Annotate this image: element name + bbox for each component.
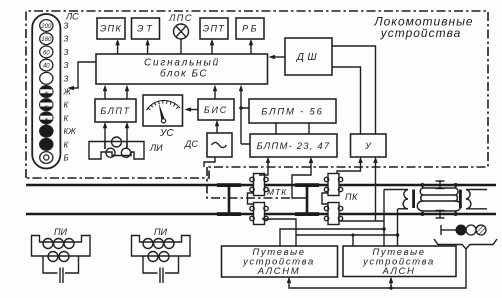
ЛИ coil bbox=[112, 137, 122, 147]
connectors БЛПМ-56 to БЛПМ-23,47 bbox=[276, 123, 309, 134]
wire transformer secondary drops bbox=[383, 190, 385, 222]
svg-text:БЛПМ - 56: БЛПМ - 56 bbox=[261, 107, 323, 118]
svg-text:З: З bbox=[64, 61, 69, 70]
svg-text:З: З bbox=[64, 35, 69, 44]
insulated joint rail2 bbox=[436, 211, 445, 219]
svg-text:З: З bbox=[64, 48, 69, 57]
locomotive signal ЛС housing bbox=[32, 14, 60, 169]
lamp yellow bbox=[40, 86, 53, 98]
signal mast tick bbox=[440, 225, 442, 235]
svg-text:МТК: МТК bbox=[267, 187, 287, 197]
svg-text:Ж: Ж bbox=[63, 88, 72, 97]
insulated joint rail1 bbox=[436, 181, 445, 189]
rail junction dots bbox=[421, 183, 425, 187]
svg-text:ПИ: ПИ bbox=[154, 227, 168, 237]
arrow into БС bottom from БИС bbox=[214, 87, 216, 99]
svg-text:З: З bbox=[64, 74, 69, 83]
wheelset axle 2 bbox=[295, 183, 319, 216]
svg-text:УС: УС bbox=[159, 128, 174, 139]
block ЭПТ bbox=[200, 18, 228, 39]
transformer Tr2 secondary coil bbox=[466, 190, 471, 209]
coil МТК bottom bobbin bbox=[250, 203, 268, 225]
transformer Tr2 secondary wires bbox=[466, 189, 487, 191]
transformer Tr1 secondary coil bbox=[403, 190, 408, 209]
arrows ЛИ to БЛПТ bbox=[104, 124, 106, 149]
junction dot A bbox=[382, 227, 386, 231]
lamp ЛПС bbox=[174, 24, 189, 39]
block БЛПТ bbox=[95, 99, 136, 122]
track inductor ПИ 2 bbox=[132, 236, 191, 284]
track box Путевые устройства АЛСН bbox=[343, 246, 456, 277]
lamp red 2 bbox=[40, 138, 53, 150]
svg-text:180: 180 bbox=[41, 37, 52, 43]
brace under signal bbox=[434, 239, 497, 249]
arrow ДШ to БС bbox=[271, 56, 285, 58]
svg-text:ПИ: ПИ bbox=[54, 227, 68, 237]
track box Путевые устройства АЛСНМ bbox=[222, 246, 338, 277]
generator ДС bbox=[207, 133, 232, 157]
transformer Tr2 core bbox=[459, 190, 462, 209]
track inductor ПИ 1 bbox=[32, 236, 91, 284]
svg-text:АЛСНМ: АЛСНМ bbox=[257, 266, 300, 277]
wire ДШ to У right bbox=[332, 46, 376, 134]
wire ДШ to У left bbox=[332, 67, 361, 134]
locomotive inductor ЛИ core bbox=[89, 142, 144, 160]
arrow ДС to БИС bbox=[216, 122, 218, 133]
svg-text:200: 200 bbox=[40, 24, 52, 30]
svg-text:ПК: ПК bbox=[345, 192, 358, 202]
svg-text:ЭТ: ЭТ bbox=[137, 24, 155, 34]
wire A АЛСНМ to ПК drop bbox=[280, 229, 384, 246]
block РБ bbox=[236, 18, 264, 39]
wire B branch into АЛСН box bbox=[352, 235, 354, 246]
wire ПК bottom coil to У and АЛСН box bbox=[339, 221, 384, 246]
arrows from БС box into ЭПК ЭТ ЭПТ РБ bbox=[117, 41, 119, 54]
wire БЛПМ group to БС bbox=[241, 87, 250, 144]
wire БС to ЛС (Ж arrow) bbox=[70, 62, 96, 88]
signal lamp hatched bbox=[476, 225, 486, 235]
block У bbox=[351, 134, 387, 157]
svg-text:ЛИ: ЛИ bbox=[149, 143, 163, 153]
coil МТК top bobbin bbox=[250, 174, 268, 196]
locomotive devices dash-dot border bbox=[26, 11, 488, 198]
svg-text:КЖ: КЖ bbox=[64, 127, 77, 136]
svg-text:Ж: Ж bbox=[43, 91, 49, 96]
block ДШ bbox=[285, 38, 332, 75]
ЛИ coil lead stubs bbox=[105, 142, 127, 150]
lamp white ring bbox=[40, 152, 53, 164]
arrow БИС to УС bbox=[187, 109, 198, 111]
svg-text:Б: Б bbox=[64, 154, 69, 163]
lamp 40 bbox=[40, 59, 53, 71]
svg-text:ЭПТ: ЭПТ bbox=[203, 24, 225, 34]
wire brace to bottom bus bbox=[289, 249, 466, 288]
МТК bracket bbox=[248, 193, 254, 204]
transformer Tr1 core bbox=[412, 190, 415, 209]
signal lamp white bbox=[466, 225, 476, 235]
svg-text:ЛС: ЛС bbox=[65, 12, 79, 22]
lamp row labels bbox=[63, 22, 77, 163]
svg-text:Сигнальный: Сигнальный bbox=[144, 58, 220, 69]
impedance bond ДТ barrel bbox=[417, 185, 461, 214]
wire axle2 to БЛПМ-23,47 bbox=[292, 159, 311, 198]
signal lamp red (filled) bbox=[456, 225, 466, 235]
arrows into БС bottom from БЛПТ bbox=[104, 87, 106, 99]
rail 2 bbox=[26, 213, 496, 215]
svg-text:З: З bbox=[64, 22, 69, 31]
block ЭТ bbox=[132, 18, 160, 39]
junction dot B bbox=[396, 233, 400, 237]
block БЛПМ-23,47 bbox=[250, 134, 337, 157]
coil ПК bottom bobbin bbox=[324, 203, 342, 225]
svg-text:РБ: РБ bbox=[242, 24, 259, 34]
svg-text:устройства: устройства bbox=[380, 26, 462, 40]
block ЭПК bbox=[97, 18, 125, 39]
lamp 180 bbox=[40, 33, 53, 45]
svg-text:АЛСН: АЛСН bbox=[382, 266, 416, 277]
ПК bracket bbox=[322, 193, 328, 204]
svg-text:блок БС: блок БС bbox=[160, 68, 208, 80]
block БЛПМ-56 bbox=[249, 99, 336, 123]
wheelset axle 1 bbox=[217, 183, 241, 216]
svg-text:ЛПС: ЛПС bbox=[168, 13, 193, 23]
svg-text:ДШ: ДШ bbox=[296, 52, 320, 63]
lamp КЖ 2 bbox=[40, 112, 53, 124]
lamp КЖ 1 bbox=[40, 99, 53, 111]
svg-text:Ж: Ж bbox=[43, 117, 49, 122]
wire B АЛСНМ to transformer drop bbox=[296, 234, 398, 236]
wire МТК bottom coil to АЛСНМ box bbox=[262, 219, 296, 246]
transformer Tr1 secondary wires bbox=[384, 189, 408, 191]
meter УС bbox=[143, 95, 183, 126]
wire ДС to rails area bbox=[204, 157, 215, 167]
wire МТК top coil to БЛПМ-23,47 bbox=[259, 159, 268, 175]
lamp 200 bbox=[40, 20, 53, 32]
svg-text:ДС: ДС bbox=[184, 139, 198, 149]
lamp 60 bbox=[40, 46, 53, 58]
lamp green bbox=[40, 72, 53, 84]
svg-text:60: 60 bbox=[43, 50, 50, 56]
svg-text:БИС: БИС bbox=[204, 105, 228, 115]
block Сигнальный блок БС bbox=[96, 54, 268, 84]
lamp ЛПС stem bbox=[180, 39, 182, 54]
wire ПК top coil to У bbox=[337, 159, 361, 174]
svg-text:БЛПТ: БЛПТ bbox=[100, 106, 130, 116]
svg-text:40: 40 bbox=[43, 64, 50, 70]
lamp red 1 bbox=[40, 125, 53, 137]
signal arm bbox=[441, 229, 456, 231]
rail 1 bbox=[26, 184, 496, 186]
svg-text:ЭПК: ЭПК bbox=[100, 24, 122, 34]
coil ПК top bobbin bbox=[324, 174, 342, 196]
svg-text:К: К bbox=[45, 104, 48, 109]
svg-text:БЛПМ- 23, 47: БЛПМ- 23, 47 bbox=[257, 141, 331, 152]
arrow into АЛСН box bottom bbox=[390, 279, 392, 289]
block БИС bbox=[198, 99, 234, 120]
